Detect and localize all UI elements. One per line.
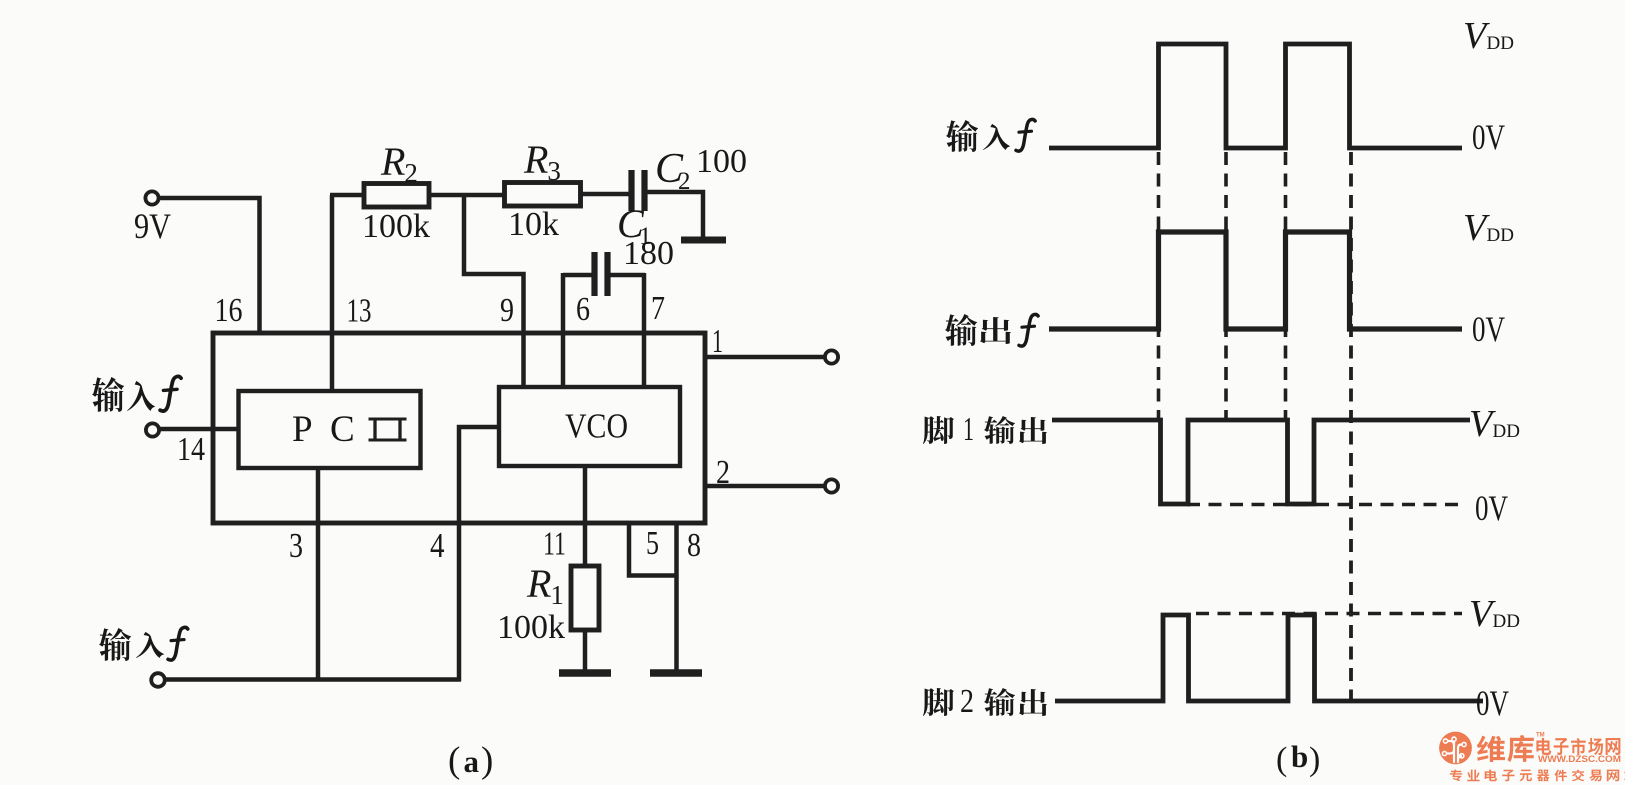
svg-text:b: b [1291,739,1308,774]
label waveform output f [945,314,1038,346]
wire pin 4 to VCO [459,427,500,681]
waveform output f trace [1049,232,1462,329]
value 100 (C2) [696,143,747,180]
pin 1 lead [705,355,826,360]
svg-text:): ) [481,740,493,781]
svg-text:13: 13 [347,293,372,330]
pin label 11 [543,526,566,563]
svg-text:TM: TM [1536,733,1545,739]
svg-text:(: ( [448,740,460,781]
label C1 [617,201,652,250]
svg-text:R: R [526,561,551,606]
wire pin 13 to PC II block [330,195,335,393]
resistor R1 [571,566,599,630]
svg-text:R: R [523,137,548,182]
ground (R1) [559,669,611,677]
wire pin 6 [561,273,566,389]
wire pin 11 [583,466,588,568]
svg-text:R: R [380,139,405,184]
caption (b) [1276,739,1320,778]
label VDD (input f) [1463,15,1514,57]
svg-text:100: 100 [696,143,747,180]
capacitor C1 [563,252,645,296]
caption (a) [448,740,493,781]
dashed timing line t3 [1284,152,1288,418]
label waveform input f [946,119,1035,152]
svg-text:VCO: VCO [565,407,628,446]
label 0V (pin1) [1475,488,1508,528]
ground (C2) [681,237,726,244]
pin label 16 [215,292,243,329]
dashed timing line t4 (long) [1349,152,1353,700]
resistor R3 [505,183,581,207]
svg-text:10k: 10k [508,206,559,243]
pin 2 lead [705,484,826,489]
pin label 7 [651,290,665,327]
svg-text:C: C [330,409,355,450]
label 0V (output f) [1472,309,1505,349]
label VDD (pin2) [1469,593,1520,635]
wire C2 to ground [647,192,703,237]
svg-text:100k: 100k [362,208,430,245]
svg-text:7: 7 [651,290,665,327]
svg-text:DD: DD [1487,33,1514,54]
wire pin 3 [316,468,321,681]
pin label 8 [687,527,701,564]
pin label 5 [646,525,659,562]
capacitor C2 [632,170,645,211]
IC box [213,333,705,523]
svg-text:180: 180 [623,235,674,272]
label VDD (output f) [1463,207,1514,249]
wire R2 to R3 [429,193,505,198]
svg-text:0V: 0V [1472,309,1505,349]
waveform pin2 trace [1055,615,1483,701]
pin label 2 [716,454,730,491]
dashed timing line t2 [1224,152,1228,418]
terminal input f (pin 14) [146,423,240,436]
svg-text:16: 16 [215,292,243,329]
waveform input f trace [1049,44,1462,148]
svg-text:2: 2 [960,683,974,720]
svg-text:0V: 0V [1475,488,1508,528]
svg-text:2: 2 [716,454,730,491]
terminal 9V [145,191,158,204]
svg-text:3: 3 [289,526,303,565]
label input f (pin 14) [92,376,181,412]
waveform pin1 trace [1052,420,1470,504]
label 0V (pin2) [1476,683,1509,723]
wire to R2 left lead [330,193,365,198]
pin label 1 [712,323,723,360]
wire 9V to IC top (pin 16) [159,198,260,333]
block PC II [239,391,421,468]
svg-text:1: 1 [963,411,974,448]
pin label 13 [347,293,372,330]
svg-text:11: 11 [543,526,566,563]
wire R1 to ground [583,630,588,672]
label 9V [134,206,171,246]
label R3 [523,137,561,186]
terminal pin 1 [825,350,838,363]
svg-text:(: ( [1276,741,1287,778]
label VDD (pin1) [1469,403,1520,445]
svg-text:5: 5 [646,525,659,562]
dashed 0V line (pin1) [1187,503,1462,507]
svg-text:9V: 9V [134,206,171,246]
pin label 14 [177,431,205,468]
svg-text:3: 3 [547,156,561,186]
label waveform pin2 output [923,683,1047,720]
ground (pin 8) [650,669,702,677]
svg-text:a: a [464,744,480,779]
svg-text:): ) [1309,741,1320,778]
value 100k (R1) [497,609,565,646]
wire R3 to C2 [580,192,629,197]
svg-text:1: 1 [550,580,564,610]
wire pin 5 jog [629,523,676,576]
svg-text:14: 14 [177,431,205,468]
label C2 [655,146,691,195]
label R2 [380,139,418,188]
wire pin 9 jog [464,193,524,389]
block VCO [499,387,680,466]
dashed VDD line (pin2) [1196,612,1462,616]
svg-text:2: 2 [404,158,418,188]
pin label 9 [500,292,514,329]
svg-text:4: 4 [430,526,445,565]
svg-text:8: 8 [687,527,701,564]
terminal pin 2 [825,479,838,492]
wire pin 7 [642,273,647,389]
svg-text:WWW.DZSC.COM: WWW.DZSC.COM [1538,754,1621,764]
pin label 4 [430,526,445,565]
watermark logo weiku [1439,732,1625,782]
svg-text:DD: DD [1493,611,1520,632]
label input f (bottom) [99,627,188,661]
svg-text:DD: DD [1487,225,1514,246]
pin label 3 [289,526,303,565]
svg-text:P: P [292,409,313,450]
value 10k (R3) [508,206,559,243]
svg-text:0V: 0V [1472,117,1505,157]
svg-text:1: 1 [712,323,723,360]
dashed timing line t1 [1157,152,1161,418]
value 100k (R2) [362,208,430,245]
svg-text:0V: 0V [1476,683,1509,723]
svg-text:6: 6 [576,291,590,328]
value 180 (C1) [623,235,674,272]
terminal input f (bottom) [151,673,461,687]
svg-text:100k: 100k [497,609,565,646]
label waveform pin1 output [923,411,1047,448]
label 0V (input f) [1472,117,1505,157]
svg-text:9: 9 [500,292,514,329]
svg-text:DD: DD [1493,421,1520,442]
wire pin 8 to ground [674,523,679,672]
pin label 6 [576,291,590,328]
label R1 [526,561,564,610]
resistor R2 [364,184,429,208]
